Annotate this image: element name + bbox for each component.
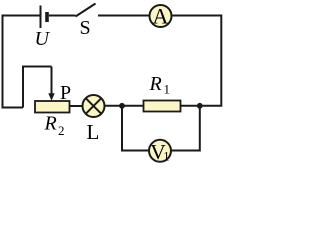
- svg-text:R: R: [149, 73, 162, 95]
- wire top-left from corner to battery: [3, 16, 41, 108]
- wire bottom-left: [2, 107, 24, 109]
- wire battery to switch pivot: [49, 15, 76, 17]
- rheostat R2 body: [35, 101, 70, 113]
- wire node A down to voltmeter: [122, 106, 149, 151]
- wire switch to ammeter: [98, 15, 149, 17]
- wire lamp to rheostat: [70, 105, 83, 107]
- slider arrow P: [48, 67, 54, 101]
- ammeter A: [150, 3, 172, 28]
- node A junction dot: [119, 103, 125, 109]
- svg-text:P: P: [60, 82, 71, 104]
- svg-text:L: L: [87, 120, 100, 144]
- switch S blade: [76, 4, 96, 17]
- wire ammeter to top-right corner down to node B: [173, 16, 222, 106]
- wire R1 to lamp with node A: [105, 105, 144, 107]
- voltmeter V1: [149, 140, 171, 164]
- svg-text:1: 1: [163, 150, 169, 164]
- lamp L: [83, 95, 105, 117]
- svg-text:R: R: [44, 113, 57, 135]
- battery U long plate: [40, 6, 42, 29]
- svg-text:1: 1: [164, 82, 171, 97]
- node B junction dot: [197, 103, 203, 109]
- wire over to slider: [23, 67, 52, 108]
- svg-text:S: S: [80, 17, 91, 39]
- resistor R1: [144, 101, 181, 112]
- svg-text:2: 2: [58, 123, 65, 138]
- battery U short plate: [45, 12, 49, 22]
- wire voltmeter up to node B: [172, 106, 200, 151]
- svg-text:A: A: [153, 3, 169, 28]
- svg-text:U: U: [35, 28, 51, 50]
